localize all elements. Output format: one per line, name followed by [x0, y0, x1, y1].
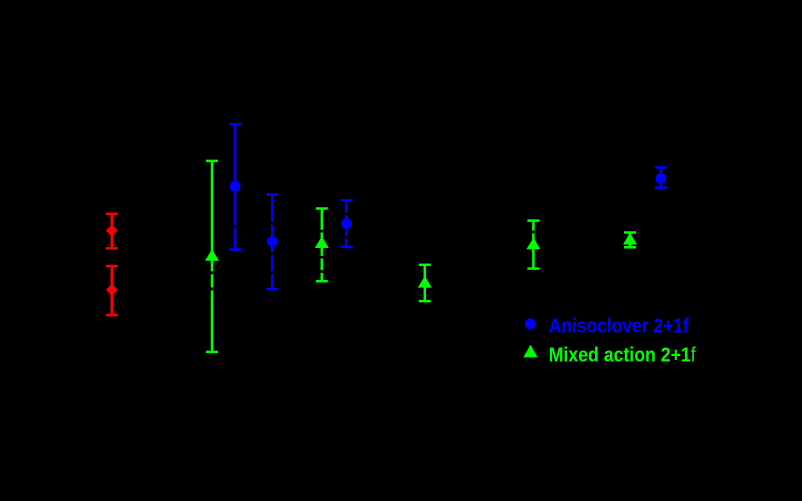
green triangle marker 4	[526, 238, 540, 250]
blue circle marker 3	[341, 218, 352, 229]
svg-text:Anisoclover 2+1f: Anisoclover 2+1f	[549, 316, 689, 338]
green data point 1 error bar	[206, 161, 218, 352]
notch on blue bar 1	[233, 225, 237, 228]
notches on blue bar 2	[270, 222, 274, 225]
svg-text:Mixed action 2+1f: Mixed action 2+1f	[549, 344, 696, 366]
green triangle marker 3	[418, 276, 432, 288]
blue data point 4 error bar	[655, 168, 667, 188]
legend marker green triangle	[523, 345, 537, 358]
blue circle marker 1	[230, 181, 241, 192]
red data point 1 error bar	[106, 214, 118, 249]
green data point 5 error bar	[624, 233, 636, 248]
green data point 2 error bar	[316, 209, 328, 282]
blue data point 3 error bar	[341, 200, 353, 247]
red diamond marker 1	[106, 225, 118, 237]
red data point 2 error bar	[106, 266, 118, 315]
blue data point 2 error bar	[266, 195, 278, 289]
green triangle marker 2	[315, 236, 329, 248]
blue circle marker 4	[655, 173, 666, 184]
legend marker blue circle	[525, 319, 536, 330]
green data point 4 error bar	[527, 221, 539, 269]
notch on green bar 1	[210, 271, 214, 274]
green data point 3 error bar	[419, 265, 431, 301]
green triangle marker 5	[623, 233, 637, 245]
notches on blue bar 3	[344, 213, 348, 216]
blue circle marker 2	[267, 236, 278, 247]
notch on green bar 4	[531, 231, 535, 234]
green triangle marker 1	[205, 249, 219, 261]
notches on green bar 2	[320, 230, 324, 233]
blue data point 1 error bar	[229, 124, 241, 249]
red diamond marker 2	[106, 284, 118, 296]
